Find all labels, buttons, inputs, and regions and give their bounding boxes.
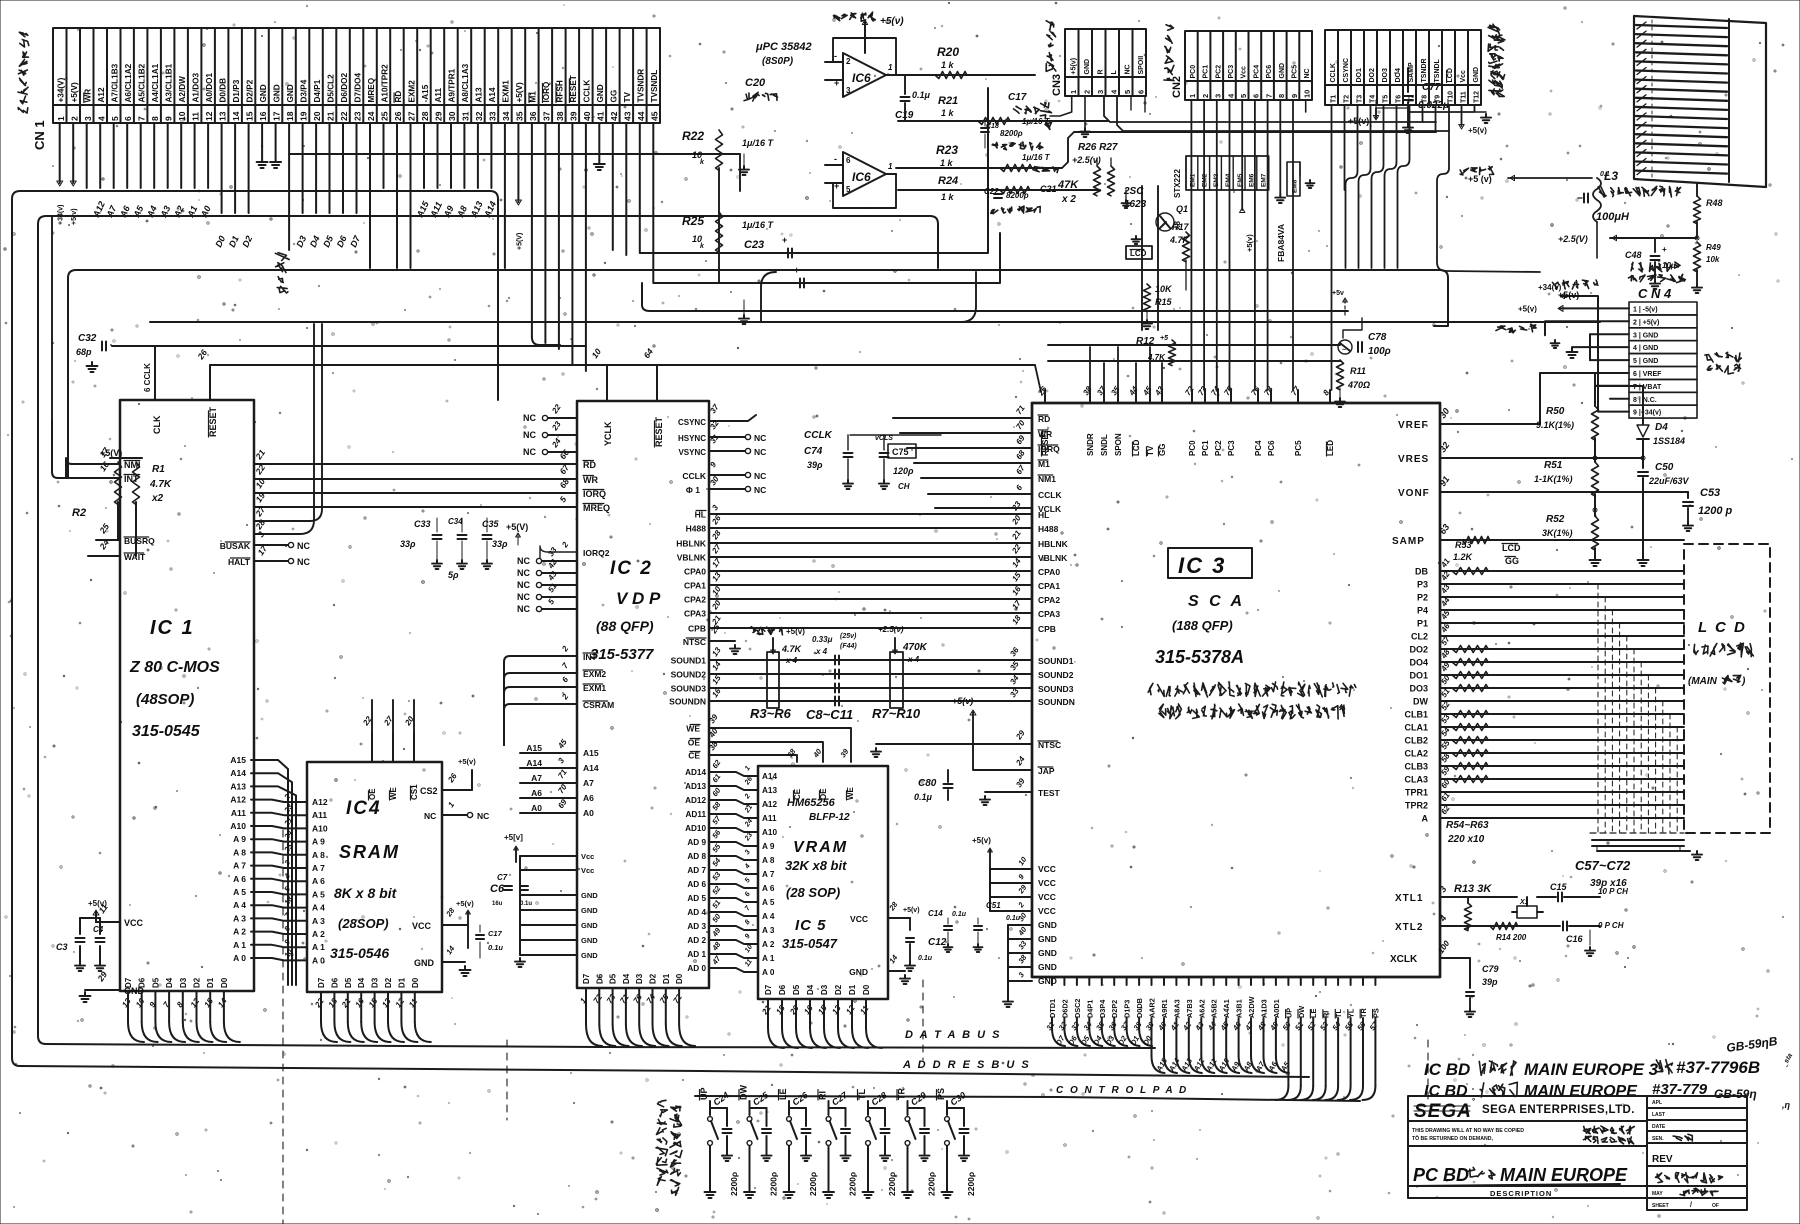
svg-text:1SS184: 1SS184	[1653, 436, 1685, 446]
svg-text:CSYNC: CSYNC	[1343, 58, 1350, 83]
svg-text:14: 14	[1010, 556, 1023, 569]
svg-text:R49: R49	[1706, 243, 1721, 252]
svg-text:T8: T8	[1421, 95, 1428, 103]
svg-text:13: 13	[120, 996, 133, 1009]
svg-text:A7B3: A7B3	[1185, 999, 1194, 1018]
svg-text:100: 100	[1436, 939, 1451, 956]
svg-text:PC2: PC2	[1215, 65, 1222, 79]
svg-text:24: 24	[1014, 754, 1027, 768]
svg-text:15: 15	[710, 673, 723, 686]
svg-text:71: 71	[618, 992, 631, 1005]
svg-text:T2: T2	[1343, 95, 1350, 103]
svg-text:NC: NC	[297, 557, 310, 567]
svg-text:28: 28	[444, 905, 457, 918]
svg-text:26: 26	[710, 513, 723, 527]
svg-text:A3: A3	[158, 204, 172, 220]
svg-text:21: 21	[1010, 528, 1023, 542]
svg-text:1200 p: 1200 p	[1698, 505, 1733, 517]
svg-text:20: 20	[788, 1003, 801, 1017]
svg-text:45: 45	[1141, 384, 1154, 398]
svg-text:1: 1	[56, 116, 66, 121]
svg-text:VCC: VCC	[412, 921, 432, 931]
svg-text:18: 18	[327, 996, 340, 1009]
svg-text:CL2: CL2	[1411, 632, 1428, 642]
svg-text:TSNDL: TSNDL	[1434, 58, 1441, 82]
svg-text:2200ρ: 2200ρ	[808, 1172, 818, 1196]
svg-text:D3: D3	[820, 984, 829, 995]
svg-text:LCD: LCD	[1447, 68, 1454, 82]
svg-text:CPA0: CPA0	[1038, 567, 1060, 577]
svg-text:P2: P2	[1417, 593, 1428, 603]
svg-text:C80: C80	[918, 778, 937, 789]
svg-text:A11: A11	[231, 808, 246, 818]
svg-text:D5: D5	[151, 977, 160, 988]
svg-text:A7: A7	[531, 773, 542, 783]
svg-text:NC: NC	[517, 568, 530, 578]
svg-text:VCC: VCC	[1038, 878, 1056, 888]
svg-text:Vcc: Vcc	[581, 852, 594, 861]
svg-text:TL: TL	[857, 1089, 867, 1100]
svg-text:11: 11	[744, 958, 754, 968]
svg-text:2: 2	[69, 116, 79, 121]
svg-text:D1P3: D1P3	[1123, 1000, 1132, 1018]
svg-text:+5(V): +5(V)	[516, 233, 523, 250]
svg-text:C8~C11: C8~C11	[806, 707, 853, 722]
svg-text:22uF/63V: 22uF/63V	[1648, 476, 1690, 486]
svg-text:RD: RD	[394, 91, 403, 103]
svg-text:9: 9	[744, 933, 752, 940]
svg-text:58: 58	[710, 799, 723, 812]
svg-text:A 8: A 8	[233, 847, 246, 857]
svg-text:14: 14	[231, 111, 241, 121]
svg-text:A13: A13	[762, 786, 777, 795]
svg-text:A 0: A 0	[233, 953, 246, 963]
svg-text:A 6: A 6	[233, 874, 246, 884]
svg-text:DW: DW	[739, 1085, 749, 1100]
svg-text:8 | N.C.: 8 | N.C.	[1633, 397, 1657, 404]
svg-text:(25ν): (25ν)	[840, 633, 857, 640]
svg-text:PS: PS	[936, 1088, 946, 1100]
svg-text:A14: A14	[526, 758, 542, 768]
svg-text:SOUND3: SOUND3	[671, 684, 707, 694]
svg-text:L: L	[1111, 70, 1118, 75]
svg-text:315-5377: 315-5377	[590, 646, 654, 663]
svg-text:21: 21	[743, 804, 754, 815]
svg-text:14: 14	[444, 943, 457, 956]
svg-text:EXM1: EXM1	[502, 80, 511, 103]
svg-text:30: 30	[447, 111, 457, 121]
svg-text:17: 17	[710, 556, 723, 569]
svg-text:24: 24	[550, 436, 563, 450]
svg-text:A1: A1	[185, 204, 199, 220]
svg-text:35: 35	[1109, 384, 1122, 397]
svg-text:C23: C23	[744, 239, 764, 251]
svg-text:SAMP: SAMP	[1408, 62, 1415, 83]
svg-text:PC4: PC4	[1254, 440, 1263, 456]
svg-text:C14: C14	[928, 909, 943, 918]
svg-text:A8/CL1A3: A8/CL1A3	[461, 63, 470, 102]
svg-text:A 4: A 4	[233, 900, 246, 910]
svg-text:A: A	[1422, 814, 1429, 824]
svg-text:26: 26	[393, 111, 403, 121]
svg-text:HBLNK: HBLNK	[676, 539, 707, 549]
svg-text:A12: A12	[312, 797, 328, 807]
svg-text:24: 24	[366, 111, 376, 121]
svg-text:55: 55	[710, 841, 723, 854]
svg-text:RFSH: RFSH	[556, 80, 565, 102]
svg-text:C50: C50	[1655, 462, 1674, 473]
svg-text:1μ/16 T: 1μ/16 T	[1022, 117, 1051, 126]
svg-text:3: 3	[83, 116, 93, 121]
svg-text:A13: A13	[230, 781, 246, 791]
svg-text:GND: GND	[1038, 948, 1057, 958]
svg-text:D5: D5	[792, 984, 801, 995]
svg-text:VCC: VCC	[1038, 892, 1056, 902]
svg-text:20: 20	[312, 111, 322, 121]
svg-text:CLB2: CLB2	[1404, 736, 1428, 746]
svg-text:VSYNC: VSYNC	[678, 448, 706, 457]
svg-text:C17: C17	[488, 929, 503, 938]
svg-text:TPR1: TPR1	[1405, 788, 1428, 798]
svg-text:(MAIN: (MAIN	[1688, 676, 1718, 687]
svg-text:+5(v): +5(v)	[903, 907, 920, 914]
svg-text:CPA0: CPA0	[684, 567, 706, 577]
svg-text:A 9: A 9	[312, 837, 325, 847]
svg-text:R54~R63: R54~R63	[1446, 820, 1489, 831]
svg-text:44: 44	[1205, 1019, 1218, 1032]
svg-text:D0: D0	[411, 977, 420, 988]
svg-text:A14: A14	[488, 87, 497, 102]
svg-text:43: 43	[1193, 1019, 1206, 1032]
svg-text:R7~R10: R7~R10	[872, 706, 921, 721]
svg-text:NC: NC	[517, 556, 530, 566]
svg-text:23: 23	[353, 111, 363, 121]
svg-text:A D D R E S B U S: A D D R E S B U S	[902, 1059, 1031, 1071]
svg-text:A 8: A 8	[312, 850, 325, 860]
svg-text:LAST: LAST	[1652, 1112, 1665, 1118]
svg-text:77: 77	[1289, 384, 1302, 397]
svg-text:S C A: S C A	[1188, 593, 1245, 610]
svg-text:5: 5	[846, 185, 851, 194]
svg-text:AD 2: AD 2	[687, 936, 706, 945]
svg-text:C17: C17	[1008, 92, 1027, 103]
svg-text:54: 54	[1330, 1019, 1343, 1032]
svg-text:-A15: -A15	[421, 84, 430, 102]
svg-text:IC6: IC6	[852, 170, 871, 184]
svg-text:60: 60	[710, 785, 723, 798]
svg-text:C3: C3	[56, 942, 68, 952]
svg-text:18: 18	[1010, 613, 1023, 626]
svg-text:100ρ: 100ρ	[1368, 346, 1391, 357]
svg-text:R26 R27: R26 R27	[1078, 142, 1118, 153]
svg-text:VRES: VRES	[1398, 454, 1429, 465]
svg-text:2: 2	[743, 793, 752, 801]
svg-text:A 5: A 5	[312, 889, 325, 899]
svg-text:TV: TV	[623, 91, 632, 102]
svg-text:6 | VREF: 6 | VREF	[1633, 371, 1662, 378]
svg-text:DO4: DO4	[1395, 68, 1402, 83]
svg-text:0.1u: 0.1u	[918, 955, 933, 962]
svg-text:25: 25	[97, 521, 111, 536]
svg-text:67: 67	[1014, 463, 1027, 476]
svg-text:15: 15	[816, 1003, 829, 1016]
svg-text:D4: D4	[308, 234, 322, 249]
svg-text:1μ/16 T: 1μ/16 T	[742, 138, 774, 148]
svg-text:A2/DW: A2/DW	[178, 76, 187, 103]
svg-text:C O N T R O L P A D: C O N T R O L P A D	[1056, 1085, 1188, 1096]
svg-text:16: 16	[353, 996, 366, 1009]
svg-text:C51: C51	[986, 901, 1001, 910]
svg-text:VONF: VONF	[1398, 488, 1430, 499]
svg-text:57: 57	[1368, 1019, 1381, 1032]
svg-text:A 0: A 0	[312, 955, 325, 965]
svg-text:48: 48	[1255, 1019, 1268, 1032]
svg-text:A12: A12	[97, 87, 106, 102]
svg-text:C77: C77	[1422, 82, 1441, 93]
svg-text:A8A3: A8A3	[1172, 999, 1181, 1018]
svg-text:4.7K: 4.7K	[149, 479, 172, 490]
svg-text:A7: A7	[583, 778, 594, 788]
svg-text:GND: GND	[596, 84, 605, 102]
svg-text:GND: GND	[581, 906, 598, 915]
svg-text:D1: D1	[227, 234, 241, 249]
svg-text:4: 4	[96, 116, 106, 121]
svg-text:A 7: A 7	[762, 870, 775, 879]
svg-text:36: 36	[1106, 1019, 1119, 1032]
svg-text:EM4: EM4	[1225, 173, 1232, 187]
svg-text:A 9: A 9	[233, 834, 246, 844]
svg-text:315-0547: 315-0547	[782, 936, 838, 951]
svg-text:CN2: CN2	[1171, 76, 1183, 98]
svg-text:SEN.: SEN.	[1652, 1136, 1664, 1142]
svg-text:43: 43	[1153, 384, 1166, 398]
svg-text:L3: L3	[1604, 169, 1618, 183]
svg-text:32: 32	[474, 111, 484, 121]
svg-text:T3: T3	[1356, 95, 1363, 103]
svg-text:GND: GND	[259, 84, 268, 102]
svg-text:21: 21	[339, 996, 352, 1010]
svg-text:A6A2: A6A2	[1197, 999, 1206, 1018]
svg-text:1: 1	[1188, 94, 1197, 98]
svg-text:GND: GND	[1473, 67, 1480, 83]
svg-text:(F44): (F44)	[840, 643, 857, 650]
svg-text:CSYNC: CSYNC	[678, 418, 706, 427]
svg-text:34: 34	[1008, 673, 1021, 686]
svg-text:7: 7	[560, 661, 570, 670]
svg-text:A 1: A 1	[233, 940, 246, 950]
svg-text:A4/CL1A1: A4/CL1A1	[151, 63, 160, 102]
svg-text:1: 1	[1069, 90, 1078, 94]
svg-text:+5(v): +5(v)	[952, 696, 973, 706]
svg-text:D6/DO2: D6/DO2	[340, 72, 349, 102]
svg-text:AD 3: AD 3	[687, 922, 706, 931]
svg-text:PC3: PC3	[1228, 65, 1235, 79]
svg-text:13: 13	[218, 111, 228, 121]
svg-text:47K: 47K	[1057, 179, 1079, 191]
svg-text:Vcc: Vcc	[1241, 66, 1248, 79]
svg-text:8200ρ: 8200ρ	[1000, 129, 1023, 138]
svg-text:TSNDR: TSNDR	[1421, 58, 1428, 82]
svg-text:PC1: PC1	[1201, 440, 1210, 456]
svg-text:C75: C75	[892, 447, 909, 457]
svg-text:35: 35	[1094, 1019, 1107, 1032]
svg-text:D A T A B U S: D A T A B U S	[905, 1029, 1001, 1041]
svg-text:R22: R22	[682, 129, 704, 143]
svg-text:7: 7	[1264, 94, 1273, 98]
svg-text:1-1K(1%): 1-1K(1%)	[1534, 474, 1573, 484]
svg-text:10: 10	[134, 996, 147, 1009]
svg-text:TR: TR	[897, 1088, 907, 1100]
svg-text:T1: T1	[1330, 95, 1337, 103]
svg-text:CLB3: CLB3	[1404, 762, 1428, 772]
svg-text:A12: A12	[230, 795, 246, 805]
svg-text:A9/TPR1: A9/TPR1	[448, 68, 457, 102]
svg-text:41: 41	[1168, 1020, 1181, 1033]
svg-text:A 8: A 8	[762, 856, 775, 865]
svg-text:R17: R17	[1172, 222, 1190, 232]
svg-text:Φ 1: Φ 1	[686, 485, 700, 495]
svg-text:(8S0P): (8S0P)	[762, 56, 794, 67]
svg-text:R1: R1	[152, 464, 165, 475]
svg-text:+5(v): +5(v)	[458, 757, 476, 766]
svg-text:D1/P3: D1/P3	[232, 79, 241, 102]
svg-text:4.7K: 4.7K	[781, 644, 803, 654]
svg-text:D7: D7	[764, 984, 773, 995]
svg-text:2: 2	[1016, 900, 1027, 910]
svg-text:AAR2: AAR2	[1148, 998, 1157, 1018]
svg-text:A6: A6	[583, 793, 594, 803]
svg-text:SPON: SPON	[1114, 433, 1123, 456]
svg-text:R2: R2	[72, 507, 86, 519]
svg-text:/: /	[1690, 1202, 1692, 1209]
svg-text:AD14: AD14	[685, 768, 706, 777]
svg-text:15: 15	[367, 996, 380, 1009]
svg-text:D4: D4	[1655, 422, 1668, 433]
svg-text:RESET: RESET	[208, 406, 218, 437]
svg-text:40: 40	[582, 111, 592, 121]
svg-text:D0: D0	[675, 973, 684, 984]
svg-text:3: 3	[1214, 94, 1223, 98]
svg-text:BLFP-12: BLFP-12	[809, 812, 850, 823]
svg-text:CLA2: CLA2	[1404, 749, 1428, 759]
svg-text:44: 44	[636, 111, 646, 121]
svg-text:+5ν: +5ν	[1332, 290, 1344, 297]
svg-text:x 2: x 2	[1061, 194, 1076, 205]
svg-text:C24: C24	[711, 1090, 730, 1108]
svg-text:15: 15	[202, 996, 215, 1009]
svg-text:PC6: PC6	[1266, 65, 1273, 79]
svg-text:C27: C27	[830, 1089, 850, 1107]
svg-text:53: 53	[710, 869, 723, 882]
svg-text:A15: A15	[230, 755, 246, 765]
svg-text:33ρ: 33ρ	[400, 539, 416, 549]
svg-text:A15: A15	[526, 743, 542, 753]
svg-text:A6: A6	[118, 203, 133, 219]
svg-text:49: 49	[710, 925, 723, 938]
svg-text:A5: A5	[1278, 1059, 1292, 1073]
svg-text:C26: C26	[790, 1089, 810, 1107]
svg-text:D7: D7	[582, 973, 591, 984]
svg-text:T11: T11	[1460, 91, 1467, 103]
svg-text:5: 5	[546, 597, 556, 606]
svg-text:A11: A11	[312, 810, 327, 820]
svg-text:2200ρ: 2200ρ	[927, 1172, 937, 1196]
svg-text:CN3: CN3	[1051, 74, 1063, 96]
svg-text:D6: D6	[138, 977, 147, 988]
svg-text:R52: R52	[1546, 514, 1565, 525]
svg-text:10: 10	[1303, 90, 1312, 98]
svg-text:+5(v): +5(v)	[1468, 126, 1487, 135]
svg-text:6: 6	[560, 675, 570, 684]
svg-text:56: 56	[710, 827, 723, 840]
svg-text:SNDR: SNDR	[1086, 433, 1095, 456]
svg-text:70: 70	[556, 782, 569, 795]
svg-text:PC0: PC0	[1188, 440, 1197, 456]
svg-text:25: 25	[380, 111, 390, 121]
svg-text:PC1: PC1	[1203, 65, 1210, 79]
svg-text:CPB: CPB	[1038, 624, 1056, 634]
svg-text:A5/CL1B2: A5/CL1B2	[138, 63, 147, 102]
svg-text:NC: NC	[424, 811, 436, 821]
svg-text:x2: x2	[151, 493, 164, 504]
svg-text:C34: C34	[448, 517, 463, 526]
svg-text:62: 62	[710, 757, 723, 770]
svg-text:GND: GND	[1084, 59, 1091, 75]
svg-text:+5(V): +5(V)	[70, 82, 79, 103]
svg-text:°: °	[1472, 1097, 1475, 1106]
svg-text:CPA3: CPA3	[1038, 609, 1060, 619]
svg-text:9.1K(1%): 9.1K(1%)	[1536, 420, 1574, 430]
svg-text:315-5378A: 315-5378A	[1155, 647, 1244, 667]
svg-text:38: 38	[1081, 384, 1094, 397]
svg-text:GB-59η: GB-59η	[1714, 1087, 1757, 1101]
svg-text:14: 14	[216, 996, 229, 1009]
svg-text:V D P: V D P	[616, 589, 661, 608]
svg-text:A0: A0	[198, 204, 212, 220]
svg-text:10: 10	[589, 346, 603, 360]
svg-text:A 6: A 6	[312, 876, 325, 886]
svg-text:19: 19	[299, 111, 309, 121]
svg-text:R3~R6: R3~R6	[750, 706, 792, 721]
svg-text:25: 25	[709, 622, 722, 636]
svg-text:72: 72	[592, 992, 605, 1005]
svg-text:IORQ2: IORQ2	[583, 548, 610, 558]
svg-text:6: 6	[1252, 94, 1261, 98]
svg-text:0.33μ: 0.33μ	[812, 635, 833, 644]
svg-text:4.7K: 4.7K	[1147, 353, 1166, 362]
svg-text:40: 40	[1016, 924, 1029, 937]
svg-text:A10: A10	[312, 823, 328, 833]
svg-text:D2: D2	[649, 973, 658, 984]
svg-text:#37-7796B: #37-7796B	[1676, 1058, 1760, 1077]
svg-text:GND: GND	[1038, 920, 1057, 930]
svg-text:P4: P4	[1417, 606, 1428, 616]
svg-text:AD 9: AD 9	[687, 838, 706, 847]
svg-text:GG: GG	[1505, 556, 1519, 566]
svg-text:D7: D7	[348, 233, 362, 249]
svg-text:MREQ: MREQ	[583, 503, 610, 513]
svg-text:AD10: AD10	[685, 824, 706, 833]
svg-text:2: 2	[560, 692, 571, 702]
svg-text:57: 57	[710, 813, 723, 826]
svg-text:MAY: MAY	[1652, 1191, 1663, 1197]
svg-text:39p: 39p	[1482, 977, 1498, 987]
svg-text:MAIN EUROPE: MAIN EUROPE	[1500, 1165, 1628, 1185]
svg-text:T4: T4	[1369, 95, 1376, 103]
svg-text:DO2: DO2	[1369, 68, 1376, 83]
svg-text:6: 6	[1014, 483, 1024, 492]
svg-text:LCD: LCD	[1130, 249, 1147, 258]
